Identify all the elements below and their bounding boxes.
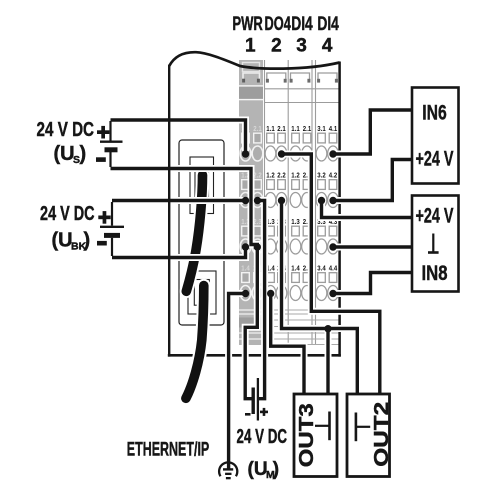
- svg-text:(U: (U: [52, 229, 73, 251]
- svg-text:24 V DC: 24 V DC: [37, 118, 95, 141]
- box OUT3: [294, 394, 337, 477]
- svg-text:OUT2: OUT2: [371, 402, 393, 467]
- box IN8 (+24V / gnd / IN8): [412, 196, 459, 292]
- svg-text:2: 2: [271, 36, 282, 57]
- svg-text:DI4: DI4: [317, 14, 339, 35]
- plus sign battery UM: [260, 408, 268, 416]
- node PWR 2.2: [254, 197, 261, 204]
- svg-text:2.2: 2.2: [253, 170, 261, 179]
- wire UBK- to PWR 1.3: [112, 247, 246, 258]
- node PWR 1.4: [242, 290, 249, 297]
- svg-text:3.2: 3.2: [317, 170, 325, 179]
- battery UBK: [100, 202, 124, 256]
- wire DO4 2.2 to OUT2 gnd: [282, 201, 358, 396]
- svg-text:(U: (U: [248, 459, 268, 480]
- terminal connection dots: [242, 150, 337, 332]
- wire PWR 1.4 to functional earth: [229, 294, 246, 470]
- wire DI4 4.4 to IN8: [333, 273, 413, 294]
- svg-text:IN6: IN6: [422, 100, 447, 124]
- ground reference symbol (box OUT2): [356, 413, 370, 442]
- svg-text:3.4: 3.4: [317, 263, 326, 272]
- svg-text:1.1: 1.1: [266, 124, 275, 133]
- plus sign battery UBK: [98, 211, 110, 224]
- svg-text:4.2: 4.2: [329, 170, 337, 179]
- terminals: DO4 cols 270.5/281.5: [265, 133, 276, 161]
- svg-text:OUT3: OUT3: [296, 403, 318, 467]
- wire DO4 1.4 to OUT3: [271, 294, 304, 396]
- pin number labels: [241, 124, 338, 272]
- node DI4 3.2: [318, 197, 325, 204]
- box OUT2: [347, 394, 390, 477]
- svg-text:24 V DC: 24 V DC: [40, 202, 95, 225]
- svg-text:PWR: PWR: [232, 14, 263, 35]
- svg-text:+24 V: +24 V: [416, 147, 454, 171]
- PWR gray strip body: [239, 60, 263, 345]
- ethernet cable A (from port 1): [186, 175, 202, 291]
- branch to OUT3 gnd: [325, 329, 332, 396]
- svg-text:1.1: 1.1: [291, 124, 300, 133]
- device left edge (drawn over wires - no gaps): [168, 65, 170, 357]
- svg-text:2.3: 2.3: [253, 217, 261, 226]
- svg-text:4.4: 4.4: [329, 263, 338, 272]
- svg-text:): ): [273, 459, 279, 480]
- wire Us- to PWR 2.3 then UM battery minus: [111, 169, 258, 399]
- node DO4 2.2: [278, 197, 285, 204]
- top curve: [169, 52, 339, 68]
- svg-text:4: 4: [322, 36, 333, 57]
- svg-text:1.2: 1.2: [266, 170, 274, 179]
- minus sign battery UM: [245, 413, 251, 416]
- PWR bracket: [243, 73, 260, 83]
- node PWR 1.3: [242, 243, 249, 250]
- node PWR 1.1: [242, 150, 249, 157]
- net label (UM): [248, 459, 280, 481]
- svg-text:DI4: DI4: [291, 14, 313, 35]
- PWR latch outline: [243, 63, 260, 72]
- bottom edge: [168, 354, 341, 357]
- svg-text:1.4: 1.4: [291, 263, 300, 272]
- wire DI4 3.2 to +24V box2: [322, 201, 413, 218]
- net label (UBK): [52, 229, 91, 252]
- svg-text:DO4: DO4: [265, 14, 292, 35]
- node DO4 2.1: [278, 150, 285, 157]
- svg-text:1: 1: [245, 36, 256, 57]
- svg-text:(U: (U: [54, 143, 75, 165]
- plus sign battery Us: [97, 126, 109, 139]
- wire UBK+ to PWR 1.2: [112, 197, 246, 204]
- svg-text:2.1: 2.1: [253, 124, 262, 133]
- inner housing rect: [179, 140, 224, 325]
- RJ45 port 2: [188, 271, 216, 314]
- ground reference symbol (box IN8): [428, 234, 439, 253]
- brackets white strips: [266, 73, 287, 83]
- wire DO4 2.1 to OUT2: [282, 154, 380, 395]
- white strip edges: [265, 60, 339, 345]
- junction gnd branch: [324, 325, 331, 332]
- node PWR 1.2: [242, 197, 249, 204]
- svg-text:): ): [84, 229, 91, 251]
- battery Us: [100, 121, 123, 167]
- svg-text:ETHERNET/IP: ETHERNET/IP: [127, 438, 210, 460]
- svg-text:): ): [80, 143, 87, 165]
- node DI4 4.1: [329, 150, 336, 157]
- node DI4 4.3: [329, 243, 336, 250]
- box IN6 / +24V: [412, 88, 459, 184]
- svg-text:3.1: 3.1: [317, 124, 326, 133]
- node PWR 2.3: [254, 243, 261, 250]
- svg-text:3: 3: [296, 36, 307, 57]
- svg-text:2.1: 2.1: [303, 124, 312, 133]
- wire DI4 4.3 to gnd box2: [333, 244, 413, 251]
- svg-text:+24 V: +24 V: [416, 203, 454, 227]
- ethernet cable B (from port 2): [186, 286, 204, 399]
- battery UM: [253, 378, 258, 421]
- wire Us+ to PWR 1.1: [111, 120, 246, 151]
- svg-text:24 V DC: 24 V DC: [237, 425, 288, 448]
- terminals: PWR (cols 245.5 / 257.5), rows squares top y 131,177.5,224,270.5: [240, 133, 251, 161]
- terminals: DI4#4 cols 321.5/333: [316, 133, 327, 161]
- PWR bottom texture: [239, 310, 263, 339]
- RJ45 port 1: [190, 157, 214, 214]
- terminals: DI4#3 cols 295.5/307: [290, 133, 301, 161]
- svg-text:2.1: 2.1: [277, 124, 286, 133]
- svg-text:1.4: 1.4: [241, 263, 250, 272]
- node DI4 4.2: [329, 197, 336, 204]
- net label (Us): [54, 143, 87, 166]
- svg-text:1.2: 1.2: [291, 170, 299, 179]
- svg-text:1.3: 1.3: [291, 217, 299, 226]
- ground reference symbol (box OUT3): [315, 412, 330, 441]
- right edge: [338, 62, 341, 357]
- minus sign battery UBK: [97, 241, 107, 246]
- svg-text:4.1: 4.1: [329, 124, 338, 133]
- node DO4 1.4: [267, 290, 274, 297]
- svg-text:2.2: 2.2: [277, 170, 285, 179]
- bottom horizontal texture on white strips: [265, 310, 339, 345]
- wire DI4 4.2 to +24V box1: [333, 160, 413, 201]
- minus sign battery Us: [96, 157, 106, 162]
- wire PWR 2.2 to UM battery plus: [258, 201, 265, 399]
- svg-text:IN8: IN8: [422, 261, 448, 285]
- node DI4 4.4: [329, 290, 336, 297]
- ground functional-earth symbol: [219, 462, 237, 479]
- wire DI4 4.1 to IN6: [333, 110, 413, 154]
